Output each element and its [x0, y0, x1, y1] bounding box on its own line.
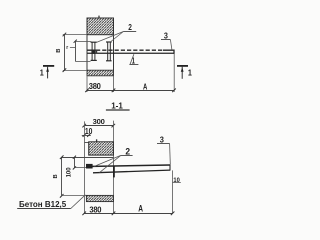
callout 3 (bottom view): underline	[157, 143, 170, 145]
callout 3 (top view): underline	[161, 39, 170, 41]
dimension 100 (bottom view): dimension line	[74, 158, 76, 168]
dim tick at 174 (top view)	[172, 89, 176, 93]
wall opening edge left (top view)	[86, 35, 88, 70]
dim 10 right underline	[173, 182, 181, 184]
bracket item2 left: web double lines	[92, 42, 95, 60]
weld blob at beam left end (bottom view)	[86, 164, 93, 169]
section mark 1 left: arrowhead	[46, 67, 49, 71]
beam I1 top edge dashed middle (top view)	[96, 49, 163, 51]
dimension G tick top	[74, 40, 77, 43]
extension line below wall right edge (top view)	[113, 76, 115, 92]
callout 3 (top view): leader to beam top	[170, 40, 172, 50]
callout 1 (top view): leader to beam	[130, 54, 134, 64]
view title underline	[106, 109, 130, 111]
tick mark on top of wall hatch (bottom view)	[96, 139, 98, 142]
beam top edge (bottom view)	[86, 165, 170, 167]
bracket item2 right: web double lines	[108, 42, 111, 60]
callout 2 (bottom view): leader to beam top	[94, 155, 121, 166]
dim tick at 85.3 (bottom view)	[82, 212, 86, 216]
dim tick at 113.5 (bottom view)	[112, 212, 116, 216]
svg-text:В: В	[56, 49, 62, 53]
right wall extension line x=113.5 (bottom view)	[113, 121, 115, 214]
svg-text:А: А	[143, 81, 148, 91]
dimension B tick bottom	[63, 68, 67, 72]
dim B (bottom) bottom extension	[62, 195, 87, 197]
svg-text:1: 1	[40, 68, 45, 77]
section mark 1 right: arrowhead	[181, 67, 184, 71]
callout 2 (top view): underline	[123, 31, 136, 33]
bracket item2 left: top flange	[91, 41, 97, 43]
tick mark on top of wall hatch	[98, 16, 100, 19]
dim B (bottom) tick top	[60, 155, 64, 159]
dim 10 tick left	[83, 134, 86, 137]
section mark 1 right: stem	[181, 67, 183, 79]
dimension G label leader	[70, 47, 76, 49]
bracket vertical leg at wall face (bottom view)	[113, 166, 115, 177]
beam I1 top edge solid ends (top view)	[87, 49, 174, 51]
callout 3 (bottom view): leader to beam end	[169, 144, 172, 165]
bolt blob left at beam-wall joint	[91, 50, 95, 54]
svg-text:1-1: 1-1	[111, 100, 123, 110]
slot top line (bottom view)	[62, 157, 114, 159]
callout 2 (bottom view): leader to beam bottom	[100, 155, 121, 172]
dimension B tick top	[63, 33, 67, 37]
beam bottom edge (bottom view)	[93, 170, 170, 173]
dim tick at 113.5 (top view)	[112, 89, 116, 93]
wall opening edge right (top view)	[113, 35, 115, 70]
dimension G extension bottom	[76, 61, 91, 63]
beam right end cap (bottom view)	[169, 164, 171, 170]
hatched wall section above opening (top view)	[87, 18, 114, 35]
dim 300 tick right	[112, 124, 116, 128]
dimension B (bottom view): dimension line	[61, 158, 63, 196]
left outer extension line x=85.3 (bottom view)	[84, 121, 86, 213]
bottom dimension line (top view)	[87, 90, 174, 92]
svg-text:г: г	[66, 45, 68, 51]
svg-text:300: 300	[93, 117, 105, 126]
callout 1 (top view): underline	[129, 64, 138, 66]
dim 100 bottom extension	[75, 167, 90, 169]
dimension B (top view): extension line top	[63, 34, 87, 36]
svg-text:В: В	[53, 174, 59, 178]
svg-text:380: 380	[89, 205, 102, 214]
beam I1 right end cap (top view)	[173, 50, 175, 54]
concrete note underline	[17, 208, 71, 210]
bracket item2 right: top flange	[106, 41, 112, 43]
dim 300 tick left	[82, 124, 86, 128]
svg-text:380: 380	[89, 82, 102, 91]
extension line below wall left edge (top view)	[86, 76, 88, 92]
dim 100 tick bottom	[73, 166, 76, 169]
dimension G extension top	[76, 41, 92, 43]
extension line at beam end x=172.6 (bottom view)	[172, 170, 174, 213]
dimension G small (top view): dimension line	[75, 42, 77, 62]
callout 2 (top view): leader to left bracket	[97, 32, 124, 43]
callout 2 (bottom view): underline	[121, 155, 133, 157]
svg-text:3: 3	[164, 31, 169, 41]
section mark 1 right: bar	[177, 65, 188, 67]
ledge line at wall setback (bottom view)	[85, 142, 89, 144]
section mark 1 left: stem	[47, 67, 49, 79]
svg-text:А: А	[138, 204, 143, 214]
concrete note leader	[71, 195, 86, 209]
bolt blob right at beam-wall joint	[96, 50, 98, 53]
svg-text:Бетон В12,5: Бетон В12,5	[19, 200, 67, 209]
dim tick at 172.6 (bottom view)	[171, 212, 175, 216]
hatched wall section below opening (top view)	[87, 70, 114, 76]
dim B (bottom) tick bottom	[60, 194, 64, 198]
dim 100 tick top	[73, 156, 76, 159]
dim 10 tick right	[87, 134, 90, 137]
svg-text:2: 2	[125, 146, 130, 157]
extension line at beam end for dim A (top view)	[173, 54, 175, 92]
beam I1 bottom edge (top view)	[87, 52, 174, 54]
callout 2 (top view): leader to right bracket	[110, 32, 123, 43]
hatched wall below opening (bottom view)	[86, 195, 113, 201]
hatched wall above slot (bottom view)	[89, 142, 114, 155]
svg-text:1: 1	[188, 68, 193, 77]
svg-text:2: 2	[128, 22, 132, 32]
bottom dimension line (bottom view)	[85, 213, 173, 215]
dimension B (top view): extension line bottom	[63, 70, 87, 72]
dimension line 10 (bottom view)	[82, 135, 91, 137]
svg-text:100: 100	[66, 167, 72, 178]
dimension line 300 (bottom view)	[85, 125, 114, 127]
dimension B (top view): dimension line	[64, 35, 66, 71]
section mark 1 left: bar	[43, 65, 54, 67]
dim tick at 87 (top view)	[85, 89, 89, 93]
bracket item2 right: bottom flange	[106, 60, 112, 62]
bracket item2 left: bottom flange	[91, 59, 97, 61]
